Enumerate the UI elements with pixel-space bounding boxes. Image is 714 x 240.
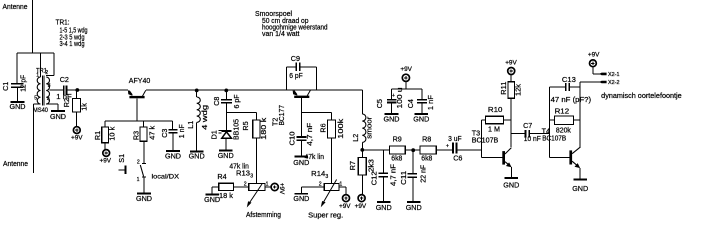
- capacitor C9 bridge wires: [285, 67, 287, 90]
- wire to T3 base: [482, 156, 503, 158]
- wire bias rail corner to C3: [172, 121, 174, 129]
- ground under C5: [385, 113, 399, 115]
- capacitor C12: [379, 172, 388, 174]
- wire junction down to R7: [361, 150, 363, 158]
- svg-text:GND: GND: [293, 194, 309, 203]
- resistor R2: [73, 99, 81, 113]
- svg-text:C12: C12: [369, 171, 378, 185]
- wire C3 to ground: [172, 133, 174, 151]
- wire R10 right lead: [504, 119, 512, 121]
- transformer TR1: [37, 77, 40, 104]
- potentiometer R14: [324, 184, 339, 191]
- power +9V under R2: [73, 127, 80, 134]
- svg-text:47 k: 47 k: [148, 125, 157, 139]
- resistor R10: [486, 116, 504, 124]
- wire TR1 pin4 to ground: [46, 103, 58, 105]
- wire TR1 pin3 to C2: [49, 89, 64, 91]
- svg-text:10 nF: 10 nF: [524, 134, 542, 143]
- wire R6 to R14 wiper: [331, 138, 333, 184]
- svg-text:1 nF: 1 nF: [177, 124, 186, 139]
- svg-text:R14: R14: [311, 169, 325, 178]
- svg-text:R10: R10: [488, 105, 503, 114]
- svg-text:+9V: +9V: [505, 60, 517, 67]
- capacitor C9: [295, 62, 297, 71]
- svg-text:GND: GND: [413, 115, 429, 124]
- wire top bus to TR1: [17, 52, 54, 54]
- potentiometer R13: [249, 184, 265, 191]
- ground under L1: [190, 150, 204, 152]
- svg-text:1k: 1k: [79, 103, 88, 111]
- svg-text:GND: GND: [189, 152, 205, 161]
- ground left of R14: [295, 193, 309, 195]
- svg-text:R8: R8: [422, 134, 431, 143]
- svg-text:C8: C8: [212, 97, 221, 106]
- wire TR1 secondary top lead pin2: [53, 53, 55, 76]
- svg-text:R13: R13: [236, 169, 250, 178]
- wire +9V to R11: [510, 75, 512, 82]
- svg-text:1: 1: [36, 73, 39, 79]
- wire R14 left to ground: [301, 186, 324, 188]
- wire R5 to R13 wiper: [255, 138, 257, 184]
- wire C12 to ground: [382, 177, 384, 202]
- wire T4 collector bus: [579, 82, 581, 148]
- svg-text:100k: 100k: [336, 118, 345, 139]
- svg-text:R7: R7: [348, 161, 357, 170]
- power +9V under R7: [358, 195, 365, 202]
- ground under S1: [137, 192, 151, 194]
- svg-text:GND: GND: [50, 112, 66, 121]
- resistor R3: [140, 127, 147, 141]
- node A junction dot: [75, 88, 79, 92]
- svg-text:+9V: +9V: [339, 203, 351, 210]
- resistor R6: [328, 120, 336, 138]
- ground under C12: [377, 201, 391, 203]
- svg-text:D1: D1: [209, 130, 218, 139]
- wire R10 left vertical: [481, 120, 483, 157]
- wiper arrow R13: [249, 184, 262, 203]
- svg-text:C5: C5: [375, 99, 384, 108]
- wire node A down to R2: [76, 90, 78, 99]
- svg-text:Afstemming: Afstemming: [246, 210, 281, 219]
- wiper arrow R14: [323, 180, 336, 203]
- wire TR1 pin5 to lower antenna: [34, 103, 41, 105]
- svg-text:C11: C11: [399, 171, 408, 185]
- capacitor C8: [221, 99, 232, 101]
- node L2 R7 R9 junction dot: [360, 148, 364, 152]
- svg-text:R12: R12: [555, 106, 570, 115]
- svg-text:R3: R3: [132, 131, 141, 140]
- svg-text:2: 2: [45, 70, 48, 76]
- svg-text:22 nF: 22 nF: [419, 164, 428, 183]
- svg-text:BC107B: BC107B: [542, 133, 566, 142]
- wire C8 top lead: [225, 90, 227, 99]
- svg-text:GND: GND: [136, 194, 152, 203]
- transistor T4 BC107B: [569, 150, 572, 164]
- svg-text:GND: GND: [503, 180, 519, 189]
- inductor L1: [196, 90, 198, 97]
- wire C5 to ground: [391, 103, 393, 113]
- svg-text:GND: GND: [406, 203, 422, 212]
- capacitor C11 top lead: [412, 150, 414, 173]
- svg-text:6k8: 6k8: [421, 154, 432, 163]
- power +9V under R1: [103, 150, 110, 157]
- wire C4 top lead: [421, 89, 423, 99]
- wire TR1 primary top lead: [40, 53, 42, 77]
- svg-text:van 1/4 watt: van 1/4 watt: [262, 29, 300, 38]
- svg-text:3: 3: [325, 174, 328, 180]
- capacitor C3: [169, 129, 178, 131]
- capacitor C7: [525, 130, 527, 137]
- wire T2 base to R6: [301, 112, 331, 114]
- wire bias rail: [105, 120, 173, 122]
- wire R3 top lead: [143, 121, 145, 127]
- terminal X2-1: [599, 73, 606, 76]
- wire C7 from collector bus: [511, 133, 525, 135]
- wire antenna vertical: [32, 0, 34, 53]
- ground under C4: [415, 113, 429, 115]
- svg-text:2: 2: [137, 160, 140, 166]
- ground under C10: [295, 155, 309, 157]
- wire R13 to +9V: [265, 186, 271, 188]
- ground under D1: [219, 150, 233, 152]
- wire C6 to R10 node: [457, 149, 482, 151]
- svg-text:Antenne: Antenne: [3, 2, 28, 11]
- ground under T4: [573, 179, 587, 181]
- resistor R4: [219, 183, 234, 190]
- wire R14 to +9V: [339, 186, 346, 188]
- ground under TR1: [51, 110, 65, 112]
- wire R9 to R8: [405, 149, 420, 151]
- resistor R1: [102, 127, 109, 143]
- svg-text:GND: GND: [384, 115, 400, 124]
- resistor R8: [420, 146, 436, 154]
- svg-text:S1: S1: [117, 154, 126, 163]
- svg-text:C9: C9: [291, 54, 300, 63]
- svg-text:MS40: MS40: [33, 107, 48, 114]
- svg-text:+: +: [446, 143, 449, 149]
- wire +9V down and across: [405, 81, 407, 89]
- svg-text:47k lin: 47k lin: [305, 152, 325, 161]
- wire T1 base down: [136, 98, 138, 121]
- svg-text:6k8: 6k8: [391, 154, 402, 163]
- wire +9V to X2-1: [592, 67, 594, 74]
- wire T3 collector bus: [510, 98, 512, 147]
- svg-text:180 k: 180 k: [259, 117, 268, 139]
- resistor R7: [358, 158, 366, 176]
- svg-text:2: 2: [319, 181, 322, 187]
- svg-text:X2-2: X2-2: [608, 80, 620, 86]
- svg-text:C13: C13: [562, 75, 576, 84]
- svg-text:1: 1: [137, 177, 140, 183]
- svg-text:C4: C4: [406, 99, 415, 108]
- svg-text:X2-1: X2-1: [608, 72, 620, 78]
- ground under C11: [407, 201, 421, 203]
- svg-text:4: 4: [47, 97, 50, 103]
- transistor T3 BC107B: [502, 151, 505, 165]
- wire C11 to ground: [412, 177, 414, 201]
- wire main rail AFY40 collector to L2 corner: [146, 89, 362, 91]
- wire T2 base down: [300, 98, 302, 137]
- svg-text:GND: GND: [376, 203, 392, 212]
- resistor R11: [508, 82, 515, 99]
- svg-text:dynamisch oortelefoontje: dynamisch oortelefoontje: [601, 93, 682, 100]
- capacitor C4: [417, 99, 427, 101]
- svg-text:Antenne: Antenne: [3, 159, 28, 168]
- wire R12 right lead: [574, 119, 580, 121]
- wire R1 top lead: [104, 121, 106, 127]
- wire T4 emitter to ground: [579, 168, 581, 179]
- svg-text:R1: R1: [93, 131, 102, 140]
- svg-text:L1: L1: [186, 121, 195, 129]
- capacitor C12 top lead: [382, 150, 384, 173]
- wire C7 to T4 node: [529, 133, 550, 135]
- svg-text:AFY40: AFY40: [129, 76, 151, 85]
- transistor T2 BC177: [294, 96, 309, 98]
- svg-text:smoor: smoor: [365, 116, 374, 139]
- svg-text:6 pF: 6 pF: [232, 94, 241, 109]
- ground under T3: [505, 177, 519, 179]
- svg-text:BC107B: BC107B: [472, 135, 499, 144]
- svg-text:2: 2: [244, 181, 247, 187]
- capacitor C13 right wire: [569, 86, 580, 88]
- wire R7 to +9V: [361, 175, 363, 195]
- wire C8 to D1: [225, 103, 227, 130]
- svg-text:+9V: +9V: [100, 158, 112, 165]
- svg-text:12k: 12k: [513, 84, 522, 96]
- svg-text:C6: C6: [453, 154, 462, 163]
- wire C1 branch down: [16, 53, 18, 83]
- svg-text:C2: C2: [60, 75, 69, 84]
- svg-text:+9V: +9V: [588, 52, 600, 59]
- svg-text:3: 3: [250, 174, 253, 180]
- svg-text:+9V: +9V: [71, 134, 83, 141]
- capacitor C6 electrolytic: [452, 143, 454, 154]
- resistor R9: [390, 146, 406, 154]
- wire C5 top lead: [391, 89, 393, 99]
- wire D1 node to R5: [226, 112, 256, 114]
- inductor L2 smoorspoel: [362, 114, 366, 142]
- capacitor C10: [296, 136, 306, 138]
- svg-text:3-4 1 wdg: 3-4 1 wdg: [60, 39, 85, 48]
- svg-text:1 M: 1 M: [488, 125, 500, 134]
- svg-text:R9: R9: [393, 134, 402, 143]
- ground under C1: [11, 101, 25, 103]
- svg-text:BB105: BB105: [231, 119, 240, 140]
- wire D1 to ground: [225, 138, 227, 150]
- svg-text:R11: R11: [499, 82, 508, 95]
- svg-text:47 nF (pF?): 47 nF (pF?): [551, 95, 592, 104]
- svg-text:1 nF: 1 nF: [426, 94, 435, 110]
- svg-text:3 uF: 3 uF: [448, 134, 462, 143]
- capacitor C1: [11, 83, 23, 85]
- capacitor C11: [408, 173, 418, 175]
- svg-text:local/DX: local/DX: [152, 174, 180, 181]
- svg-text:12 pF: 12 pF: [18, 74, 27, 92]
- wire X2-2 to collector: [580, 81, 600, 83]
- svg-text:C7: C7: [523, 121, 532, 130]
- svg-text:BC177: BC177: [277, 105, 286, 126]
- ground left of R4: [205, 193, 219, 195]
- svg-text:+9V: +9V: [400, 66, 412, 73]
- svg-text:4,7 nF: 4,7 nF: [305, 122, 314, 146]
- svg-text:GND: GND: [218, 151, 234, 160]
- svg-text:GND: GND: [10, 102, 26, 111]
- svg-text:R5: R5: [241, 121, 250, 130]
- svg-text:GND: GND: [165, 151, 181, 160]
- svg-text:+9V: +9V: [278, 183, 285, 195]
- svg-text:100 u: 100 u: [395, 88, 404, 109]
- wire C4 to ground: [421, 103, 423, 114]
- svg-text:6 pF: 6 pF: [289, 71, 303, 80]
- wire R3 to switch S1: [143, 141, 145, 163]
- svg-text:Super reg.: Super reg.: [308, 210, 343, 219]
- wire R4 to R13: [234, 186, 249, 188]
- wire R8 to C6: [436, 149, 451, 151]
- wire R4 left to ground: [212, 186, 219, 188]
- capacitor C2: [63, 85, 65, 95]
- capacitor C13 left wire: [550, 86, 566, 88]
- wire C10 to ground: [300, 140, 302, 156]
- wire R12 left lead: [550, 119, 555, 121]
- svg-text:L2: L2: [351, 134, 360, 142]
- wire R2 to +9V: [76, 112, 78, 127]
- power +9V right of R13: [271, 183, 278, 190]
- switch S1: [142, 162, 146, 164]
- svg-text:C10: C10: [287, 131, 296, 145]
- wire T3 emitter to ground: [510, 167, 512, 177]
- svg-text:5: 5: [34, 96, 37, 102]
- svg-text:GND: GND: [572, 184, 588, 193]
- resistor R5: [253, 120, 260, 138]
- svg-text:+9V: +9V: [355, 203, 367, 210]
- svg-text:R4: R4: [217, 172, 226, 181]
- wire R10 left lead: [482, 119, 486, 121]
- wire C1 to ground: [16, 87, 18, 101]
- capacitor C13: [565, 83, 567, 91]
- diode D1 varicap: [222, 130, 232, 132]
- node C8 junction dot: [224, 89, 228, 93]
- wire rail corner into L2: [361, 90, 363, 114]
- svg-text:C1: C1: [1, 82, 10, 91]
- wire R1 to +9V: [104, 143, 106, 150]
- svg-text:R6: R6: [319, 123, 328, 132]
- wire C2 to node A: [67, 89, 128, 91]
- svg-text:18 k: 18 k: [219, 191, 233, 200]
- svg-text:C3: C3: [160, 129, 169, 138]
- capacitor C5 electrolytic: [387, 99, 397, 101]
- svg-text:3: 3: [48, 83, 51, 89]
- power +9V under R14: [343, 195, 350, 202]
- node C11 junction dot: [411, 148, 415, 152]
- svg-text:GND: GND: [204, 195, 220, 204]
- svg-text:4 wdg: 4 wdg: [200, 105, 209, 130]
- wire to T4 base: [550, 156, 570, 158]
- svg-text:4,7 nF: 4,7 nF: [388, 163, 397, 186]
- wire R12 left vertical: [549, 87, 551, 157]
- svg-text:2k3: 2k3: [366, 159, 375, 172]
- wire junction to R9: [362, 149, 389, 151]
- node L1 junction dot: [195, 89, 199, 93]
- svg-text:10 k: 10 k: [108, 126, 117, 140]
- terminal X2-2: [599, 81, 606, 84]
- svg-text:R2: R2: [62, 98, 71, 107]
- ground under C3: [166, 150, 180, 152]
- resistor R12: [555, 116, 574, 125]
